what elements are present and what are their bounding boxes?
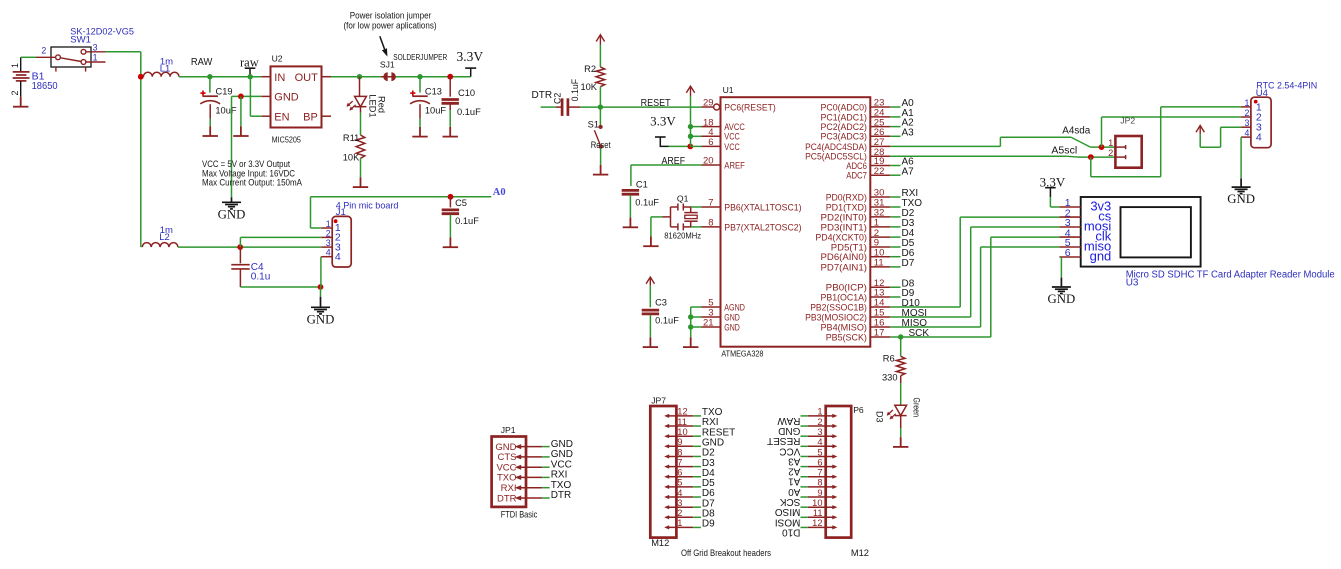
JP2 pin 1 stub <box>1115 145 1125 149</box>
svg-text:A1: A1 <box>788 476 801 487</box>
U3 pin 1 3v3 <box>1059 206 1080 208</box>
wire and net label VCC (JP1) <box>542 466 549 468</box>
U1 pin 14 PB2(SSOC1B) <box>870 306 890 308</box>
U1 pin 23 PC0(ADC0) <box>870 106 890 108</box>
svg-text:PB7(XTAL2TOSC2): PB7(XTAL2TOSC2) <box>724 222 801 233</box>
U1 pin 19 ADC6 <box>870 165 890 167</box>
svg-text:D7: D7 <box>902 258 915 269</box>
svg-text:2: 2 <box>326 228 331 238</box>
svg-text:Green: Green <box>912 398 922 418</box>
U1 pin 31 PD1(TXD) <box>870 206 890 208</box>
svg-text:R11: R11 <box>343 133 359 143</box>
junction node RAW-L1 <box>138 74 144 80</box>
svg-text:81620MHz: 81620MHz <box>664 230 701 240</box>
connector JP7 M12 header <box>650 406 676 538</box>
svg-text:M12: M12 <box>851 548 869 558</box>
connector U4 RTC 2.54-4PIN <box>1251 97 1271 148</box>
U1 pin 1 PD3(INT1) <box>870 226 890 228</box>
svg-text:LED1: LED1 <box>368 94 378 117</box>
JP1 pin RXI <box>520 487 543 489</box>
svg-text:PB6(XTAL1TOSC1): PB6(XTAL1TOSC1) <box>724 202 801 213</box>
wire DTR to C2 <box>541 106 556 108</box>
svg-text:20: 20 <box>703 156 714 167</box>
P6 pin 11 / net MOSI <box>808 516 834 518</box>
wire and net label RXI (JP1) <box>542 476 549 478</box>
wire stub and net label A1 <box>890 116 900 118</box>
svg-text:PB5(SCK): PB5(SCK) <box>826 332 867 343</box>
ground GND under RTC <box>1232 179 1251 194</box>
svg-text:5: 5 <box>677 478 682 488</box>
svg-text:C5: C5 <box>455 198 467 208</box>
junction node at C4 <box>237 244 243 250</box>
JP7 pin 3 / net D7 <box>667 506 694 508</box>
J1 pin leads <box>321 228 332 257</box>
svg-text:12: 12 <box>677 407 687 417</box>
svg-text:0.1uF: 0.1uF <box>457 107 481 117</box>
U1 pin 16 PB4(MISO) <box>870 326 890 328</box>
wire C1 to ground <box>629 195 631 218</box>
svg-text:Reset: Reset <box>591 140 611 150</box>
svg-text:C3: C3 <box>655 297 667 307</box>
wire stub and net label A0 <box>890 106 900 108</box>
switch S1 Reset <box>599 107 601 125</box>
svg-text:GND: GND <box>1227 192 1255 206</box>
svg-text:330: 330 <box>882 372 898 382</box>
wire and net label TXO (JP1) <box>542 487 549 489</box>
svg-text:4: 4 <box>326 248 331 258</box>
wire branch to ground bar <box>240 96 242 126</box>
wire VCC rail <box>690 96 692 146</box>
wire Q1 XTAL1 to U1 pin7 <box>691 206 702 208</box>
wire A5scl: U1 pin28 to JP2 pin2 <box>890 155 1066 157</box>
svg-text:JP1: JP1 <box>501 425 516 435</box>
wire A4sda to RTC pin2 <box>1101 117 1103 147</box>
svg-text:PD7(AIN1): PD7(AIN1) <box>821 262 867 273</box>
svg-text:L2: L2 <box>159 232 170 243</box>
svg-text:U3: U3 <box>1126 277 1139 288</box>
svg-text:2: 2 <box>677 508 682 518</box>
svg-text:A0: A0 <box>788 486 801 497</box>
ground bar under U1 rail <box>683 337 698 347</box>
wire SD gnd to ground <box>1060 257 1062 278</box>
svg-text:4: 4 <box>1244 128 1249 138</box>
svg-text:1: 1 <box>1244 98 1249 108</box>
wire to J1 pin 2 <box>239 237 241 247</box>
wire arrow to R2 <box>599 45 601 67</box>
svg-text:Q1: Q1 <box>677 194 689 204</box>
JP7 pin 6 / net D4 <box>667 476 694 478</box>
capacitor C10 0.1uF <box>449 77 451 97</box>
wire and net label GND (JP1) <box>542 446 549 448</box>
ground GND under SD <box>1052 278 1071 294</box>
wire AREF <box>631 164 702 166</box>
JP1 pin DTR <box>520 497 543 499</box>
svg-text:DTR: DTR <box>532 90 553 101</box>
battery B1 18650 <box>20 57 22 71</box>
svg-text:5: 5 <box>817 447 822 457</box>
wire A5scl to RTC pin1 <box>1090 157 1092 177</box>
P6 pin 8 / net A0 <box>808 486 834 488</box>
JP7 pin 5 / net D5 <box>667 486 694 488</box>
U1 pin 30 PD0(RXD) <box>870 196 890 198</box>
U1 pin 11 PD7(AIN1) <box>870 266 890 268</box>
capacitor C2 0.1uF (series) <box>562 98 568 116</box>
svg-text:C13: C13 <box>425 87 442 97</box>
svg-text:PC6(RESET): PC6(RESET) <box>724 102 776 113</box>
wire stub and net label D6 <box>890 256 900 258</box>
P6 pin 1 / net RAW <box>808 415 834 417</box>
wire arrow to C3 <box>649 286 651 308</box>
svg-text:3: 3 <box>93 42 98 52</box>
LED D3 Green <box>895 405 907 415</box>
svg-text:8: 8 <box>817 478 822 488</box>
U3 pin 4 clk <box>1059 236 1080 238</box>
svg-text:SOLDERJUMPER: SOLDERJUMPER <box>393 52 447 62</box>
module U3 Micro SD card adapter <box>1081 197 1201 267</box>
J1 pin1 marker dot <box>334 219 338 223</box>
svg-text:GND: GND <box>1048 292 1076 306</box>
svg-text:0.1u: 0.1u <box>251 271 270 282</box>
svg-text:JP2: JP2 <box>1120 116 1135 126</box>
wire SCK junction to R6 <box>900 337 902 356</box>
junction node U2 GND branch <box>238 94 244 100</box>
inductor L1 1m <box>143 72 179 76</box>
wire stub and net label A2 <box>890 126 900 128</box>
U2 pin GND <box>261 95 270 97</box>
wire battery to switch <box>21 56 36 58</box>
U1 pin 7 PB6(XTAL1TOSC1) <box>702 206 721 208</box>
junction node at C13 <box>417 74 422 79</box>
U3 pin 2 cs <box>1059 216 1080 218</box>
wire C2 to RESET junction <box>569 106 580 108</box>
svg-text:6: 6 <box>1065 247 1071 259</box>
wire R6 to LED D3 <box>900 376 902 383</box>
capacitor C19 10uF <box>209 77 211 93</box>
svg-text:VCC: VCC <box>724 142 740 153</box>
wire 3.3V to VCC rail <box>669 145 691 147</box>
svg-text:10K: 10K <box>580 82 597 92</box>
wire RESET to U1 pin 29 <box>600 106 701 108</box>
svg-text:C1: C1 <box>636 179 648 189</box>
svg-text:1: 1 <box>1108 138 1113 148</box>
svg-text:4: 4 <box>677 488 682 498</box>
U2 pin OUT <box>322 76 332 78</box>
wire stub and net label A6 <box>890 165 900 167</box>
JP7 pin 9 / net GND <box>667 445 694 447</box>
wire MOSI to SD mosi <box>890 316 970 318</box>
svg-text:A3: A3 <box>902 127 915 138</box>
svg-text:(for low power aplications): (for low power aplications) <box>344 20 437 30</box>
svg-text:2: 2 <box>1244 108 1249 118</box>
svg-text:J1: J1 <box>336 207 346 218</box>
U1 pin 13 PB1(OC1A) <box>870 296 890 298</box>
U3 pin 6 gnd <box>1059 256 1080 258</box>
svg-text:6: 6 <box>677 468 682 478</box>
connector J1 4 Pin mic board <box>332 216 351 267</box>
IC U1 ATMEGA328 <box>721 97 871 347</box>
svg-text:Red: Red <box>376 96 386 113</box>
svg-text:DTR: DTR <box>497 493 517 504</box>
U1 pin 10 PD6(AIN0) <box>870 256 890 258</box>
U4 pin leads <box>1241 107 1251 137</box>
wire D3 to ground <box>900 416 902 428</box>
wire S1 to ground <box>600 149 602 165</box>
wire EN to raw rail <box>249 77 251 117</box>
capacitor C3 0.1uF <box>642 310 659 314</box>
U1 pin 28 PC5(ADC5SCL) <box>870 155 890 157</box>
JP1 pin TXO <box>520 476 543 478</box>
wire SCK to SD clk <box>890 336 991 338</box>
junction node A5scl <box>1088 154 1094 160</box>
U3 pin 5 miso <box>1059 246 1080 248</box>
svg-text:D10: D10 <box>782 526 801 537</box>
wires rail to VCC pins <box>691 126 702 128</box>
wire C4 to ground junction <box>240 286 320 288</box>
junction node VCC6 <box>687 144 693 150</box>
svg-text:A3: A3 <box>788 456 801 467</box>
svg-text:EN: EN <box>274 111 289 123</box>
wire Q1 to ground <box>651 216 663 218</box>
capacitor C4 0.1u <box>239 247 241 263</box>
U2 pin IN <box>261 76 270 78</box>
wire power to RTC pin3 <box>1199 134 1201 147</box>
U1 pin 8 PB7(XTAL2TOSC2) <box>702 226 721 228</box>
U1 pin 5 AGND <box>702 306 721 308</box>
svg-text:ATMEGA328: ATMEGA328 <box>721 348 763 358</box>
U1 pin 18 AVCC <box>702 126 721 128</box>
svg-text:GND: GND <box>218 207 246 221</box>
capacitor C13 10uF <box>419 77 421 93</box>
ground GND under J1 <box>311 297 330 314</box>
svg-text:1: 1 <box>677 518 682 528</box>
connector P6 M12 header (mirrored) <box>826 406 852 538</box>
ground bar under battery <box>13 97 28 107</box>
regulator U2 MIC5205 <box>271 66 322 127</box>
svg-text:1: 1 <box>10 63 20 68</box>
U1 pin 24 PC1(ADC1) <box>870 116 890 118</box>
svg-text:10K: 10K <box>343 153 360 163</box>
JP7 pin 10 / net RESET <box>667 435 694 437</box>
wire SJ1 to 3.3V tap <box>396 76 471 78</box>
svg-text:3: 3 <box>1244 118 1249 128</box>
svg-text:raw: raw <box>240 55 259 69</box>
svg-text:MOSI: MOSI <box>775 516 801 527</box>
wire stub and net label D9 <box>890 296 900 298</box>
P6 pin 12 / net D10 <box>808 526 834 528</box>
svg-text:0.1uF: 0.1uF <box>455 216 479 226</box>
svg-text:A5scl: A5scl <box>1051 145 1077 156</box>
svg-text:U2: U2 <box>272 54 283 64</box>
JP7 pin 7 / net D3 <box>667 466 694 468</box>
junction node SCK/R6 <box>898 334 903 339</box>
wire stub and net label D4 <box>890 236 900 238</box>
P6 pin 7 / net A1 <box>808 476 834 478</box>
svg-text:A2: A2 <box>788 466 801 477</box>
U1 pin 26 PC3(ADC3) <box>870 135 890 137</box>
svg-text:2: 2 <box>41 45 46 55</box>
wire and net label DTR (JP1) <box>542 497 549 499</box>
svg-text:11: 11 <box>874 258 884 269</box>
svg-text:Max Current Output: 150mA: Max Current Output: 150mA <box>202 178 303 188</box>
power arrow above AVCC rail <box>686 86 694 96</box>
svg-text:11: 11 <box>677 417 687 427</box>
svg-text:C10: C10 <box>458 88 475 98</box>
power arrow above C3 <box>646 277 654 286</box>
svg-text:4: 4 <box>335 251 341 263</box>
junction node at raw tap <box>248 74 253 79</box>
crystal Q1 8/16/20MHz <box>663 204 698 231</box>
wire U2 GND to ground <box>232 95 262 97</box>
svg-text:RESET: RESET <box>767 435 800 446</box>
U1 pin 6 VCC <box>702 145 721 147</box>
JP7 pin 12 / net TXO <box>667 415 694 417</box>
svg-text:10: 10 <box>677 427 687 437</box>
JP7 pin 4 / net D6 <box>667 496 694 498</box>
svg-text:P6: P6 <box>853 405 864 415</box>
svg-text:2: 2 <box>817 417 822 427</box>
svg-text:0.1uF: 0.1uF <box>655 316 679 326</box>
wire L2 to J1 pin 3 <box>178 246 321 248</box>
svg-text:D3: D3 <box>875 411 885 423</box>
U1 pin 20 AREF <box>702 164 721 166</box>
svg-text:1: 1 <box>817 407 822 417</box>
wire C3 to ground <box>649 315 651 338</box>
wire stub and net label A3 <box>890 135 900 137</box>
U1 pin 21 GND <box>702 326 721 328</box>
svg-text:3.3V: 3.3V <box>650 114 676 129</box>
wire Q1 XTAL2 to U1 pin8 <box>691 226 702 228</box>
wire MISO to SD miso <box>890 326 980 328</box>
svg-text:Micro SD SDHC TF Card Adapter: Micro SD SDHC TF Card Adapter Reader Mod… <box>1126 269 1335 280</box>
svg-text:C19: C19 <box>216 87 233 97</box>
junction node VCC4 <box>688 134 693 139</box>
junction node at C10 / 3.3V <box>447 74 453 80</box>
wire A0 net <box>311 196 492 198</box>
svg-text:VCC: VCC <box>779 445 800 456</box>
svg-text:U1: U1 <box>723 85 734 95</box>
svg-text:M12: M12 <box>651 538 669 548</box>
capacitor C5 0.1uF <box>449 197 451 208</box>
svg-text:7: 7 <box>817 468 822 478</box>
svg-text:ADC7: ADC7 <box>846 171 867 182</box>
svg-text:9: 9 <box>817 488 822 498</box>
wire stub and net label D7 <box>890 266 900 268</box>
svg-text:10: 10 <box>812 498 822 508</box>
JP1 pin CTS <box>520 456 543 458</box>
junction node GND3 <box>688 314 693 319</box>
svg-text:SCK: SCK <box>780 496 801 507</box>
svg-text:RESET: RESET <box>641 98 671 109</box>
svg-text:SW1: SW1 <box>70 35 91 46</box>
resistor R6 330 <box>896 356 905 375</box>
U2 pin EN <box>261 115 270 117</box>
LED LED1 Red <box>359 77 361 97</box>
wire R11 to ground <box>360 158 362 177</box>
svg-text:7: 7 <box>708 198 713 209</box>
svg-text:7: 7 <box>677 457 682 467</box>
capacitor C1 0.1uF <box>622 190 639 194</box>
wire U2 OUT to SJ1 <box>331 76 384 78</box>
U1 pin 27 PC4(ADC4SDA) <box>870 145 890 147</box>
wire D10 to SD cs <box>890 306 960 308</box>
svg-text:AREF: AREF <box>662 156 686 167</box>
U1 pin 2 PD4(XCKT0) <box>870 236 890 238</box>
svg-text:A7: A7 <box>902 166 915 177</box>
wire switch pin3 to L1/L2 rail <box>106 51 141 53</box>
wire stub and net label D3 <box>890 226 900 228</box>
svg-text:R2: R2 <box>584 64 596 74</box>
svg-text:9: 9 <box>677 437 682 447</box>
junction node at C19 <box>207 74 212 79</box>
svg-text:17: 17 <box>874 328 885 339</box>
junction node LED1 branch <box>357 74 362 79</box>
svg-text:6: 6 <box>817 457 822 467</box>
ground GND under U2 <box>222 197 241 209</box>
JP7 pin 2 / net D8 <box>667 516 694 518</box>
junction node A4sda <box>1099 144 1105 150</box>
wire U1 ground rail <box>690 307 692 337</box>
P6 pin 9 / net SCK <box>808 496 834 498</box>
U1 pin 25 PC2(ADC2) <box>870 126 890 128</box>
U1 pin 3 GND <box>702 316 721 318</box>
U1 pin 17 PB5(SCK) <box>870 336 890 338</box>
svg-text:FTDI Basic: FTDI Basic <box>501 510 538 520</box>
P6 pin 4 / net VCC <box>808 445 834 447</box>
junction node GND21 <box>688 324 693 329</box>
wire RTC pin4 to ground <box>1240 137 1242 179</box>
JP7 pin 8 / net D2 <box>667 456 694 458</box>
wire A4sda: U1 pin27 to JP2 pin1 / RTC <box>890 145 1000 147</box>
U4 pin1 marker dot <box>1254 100 1258 104</box>
U1 pin 9 PD5(T1) <box>870 246 890 248</box>
wire stub and net label TXO <box>890 206 900 208</box>
svg-text:8: 8 <box>677 447 682 457</box>
svg-text:D9: D9 <box>702 519 715 530</box>
wire 3.3V to SD pin1 <box>1049 197 1051 207</box>
svg-text:10uF: 10uF <box>425 106 447 116</box>
svg-text:MISO: MISO <box>775 506 801 517</box>
svg-text:8: 8 <box>708 218 713 229</box>
svg-text:4: 4 <box>1256 132 1262 144</box>
junction node at C5 <box>448 194 454 200</box>
P6 pin 6 / net A2 <box>808 466 834 468</box>
solder jumper SJ1 <box>381 76 398 78</box>
svg-text:L1: L1 <box>160 64 171 75</box>
wire stub and net label D2 <box>890 216 900 218</box>
P6 pin 3 / net RESET <box>808 435 834 437</box>
wire stub and net label D8 <box>890 286 900 288</box>
wire LED1 to R11 <box>360 107 362 113</box>
P6 pin 5 / net A3 <box>808 456 834 458</box>
svg-text:3: 3 <box>326 238 331 248</box>
svg-text:2: 2 <box>10 90 20 95</box>
svg-text:C2: C2 <box>552 93 562 104</box>
svg-text:DTR: DTR <box>551 490 572 501</box>
svg-text:MIC5205: MIC5205 <box>272 135 301 145</box>
P6 pin 10 / net MISO <box>808 506 834 508</box>
wire J1 pin 4 down <box>320 257 322 287</box>
U1 pin 15 PB3(MOSIOC2) <box>870 316 890 318</box>
svg-text:3: 3 <box>817 427 822 437</box>
svg-text:GND: GND <box>724 322 740 333</box>
svg-text:11: 11 <box>813 508 823 518</box>
U1 pin 4 VCC <box>702 135 721 137</box>
svg-text:S1: S1 <box>588 120 599 130</box>
U1 pin 12 PB0(ICP) <box>870 286 890 288</box>
svg-text:21: 21 <box>703 318 714 329</box>
svg-text:0.1uF: 0.1uF <box>570 78 580 101</box>
svg-text:Power isolation jumper: Power isolation jumper <box>350 10 432 20</box>
